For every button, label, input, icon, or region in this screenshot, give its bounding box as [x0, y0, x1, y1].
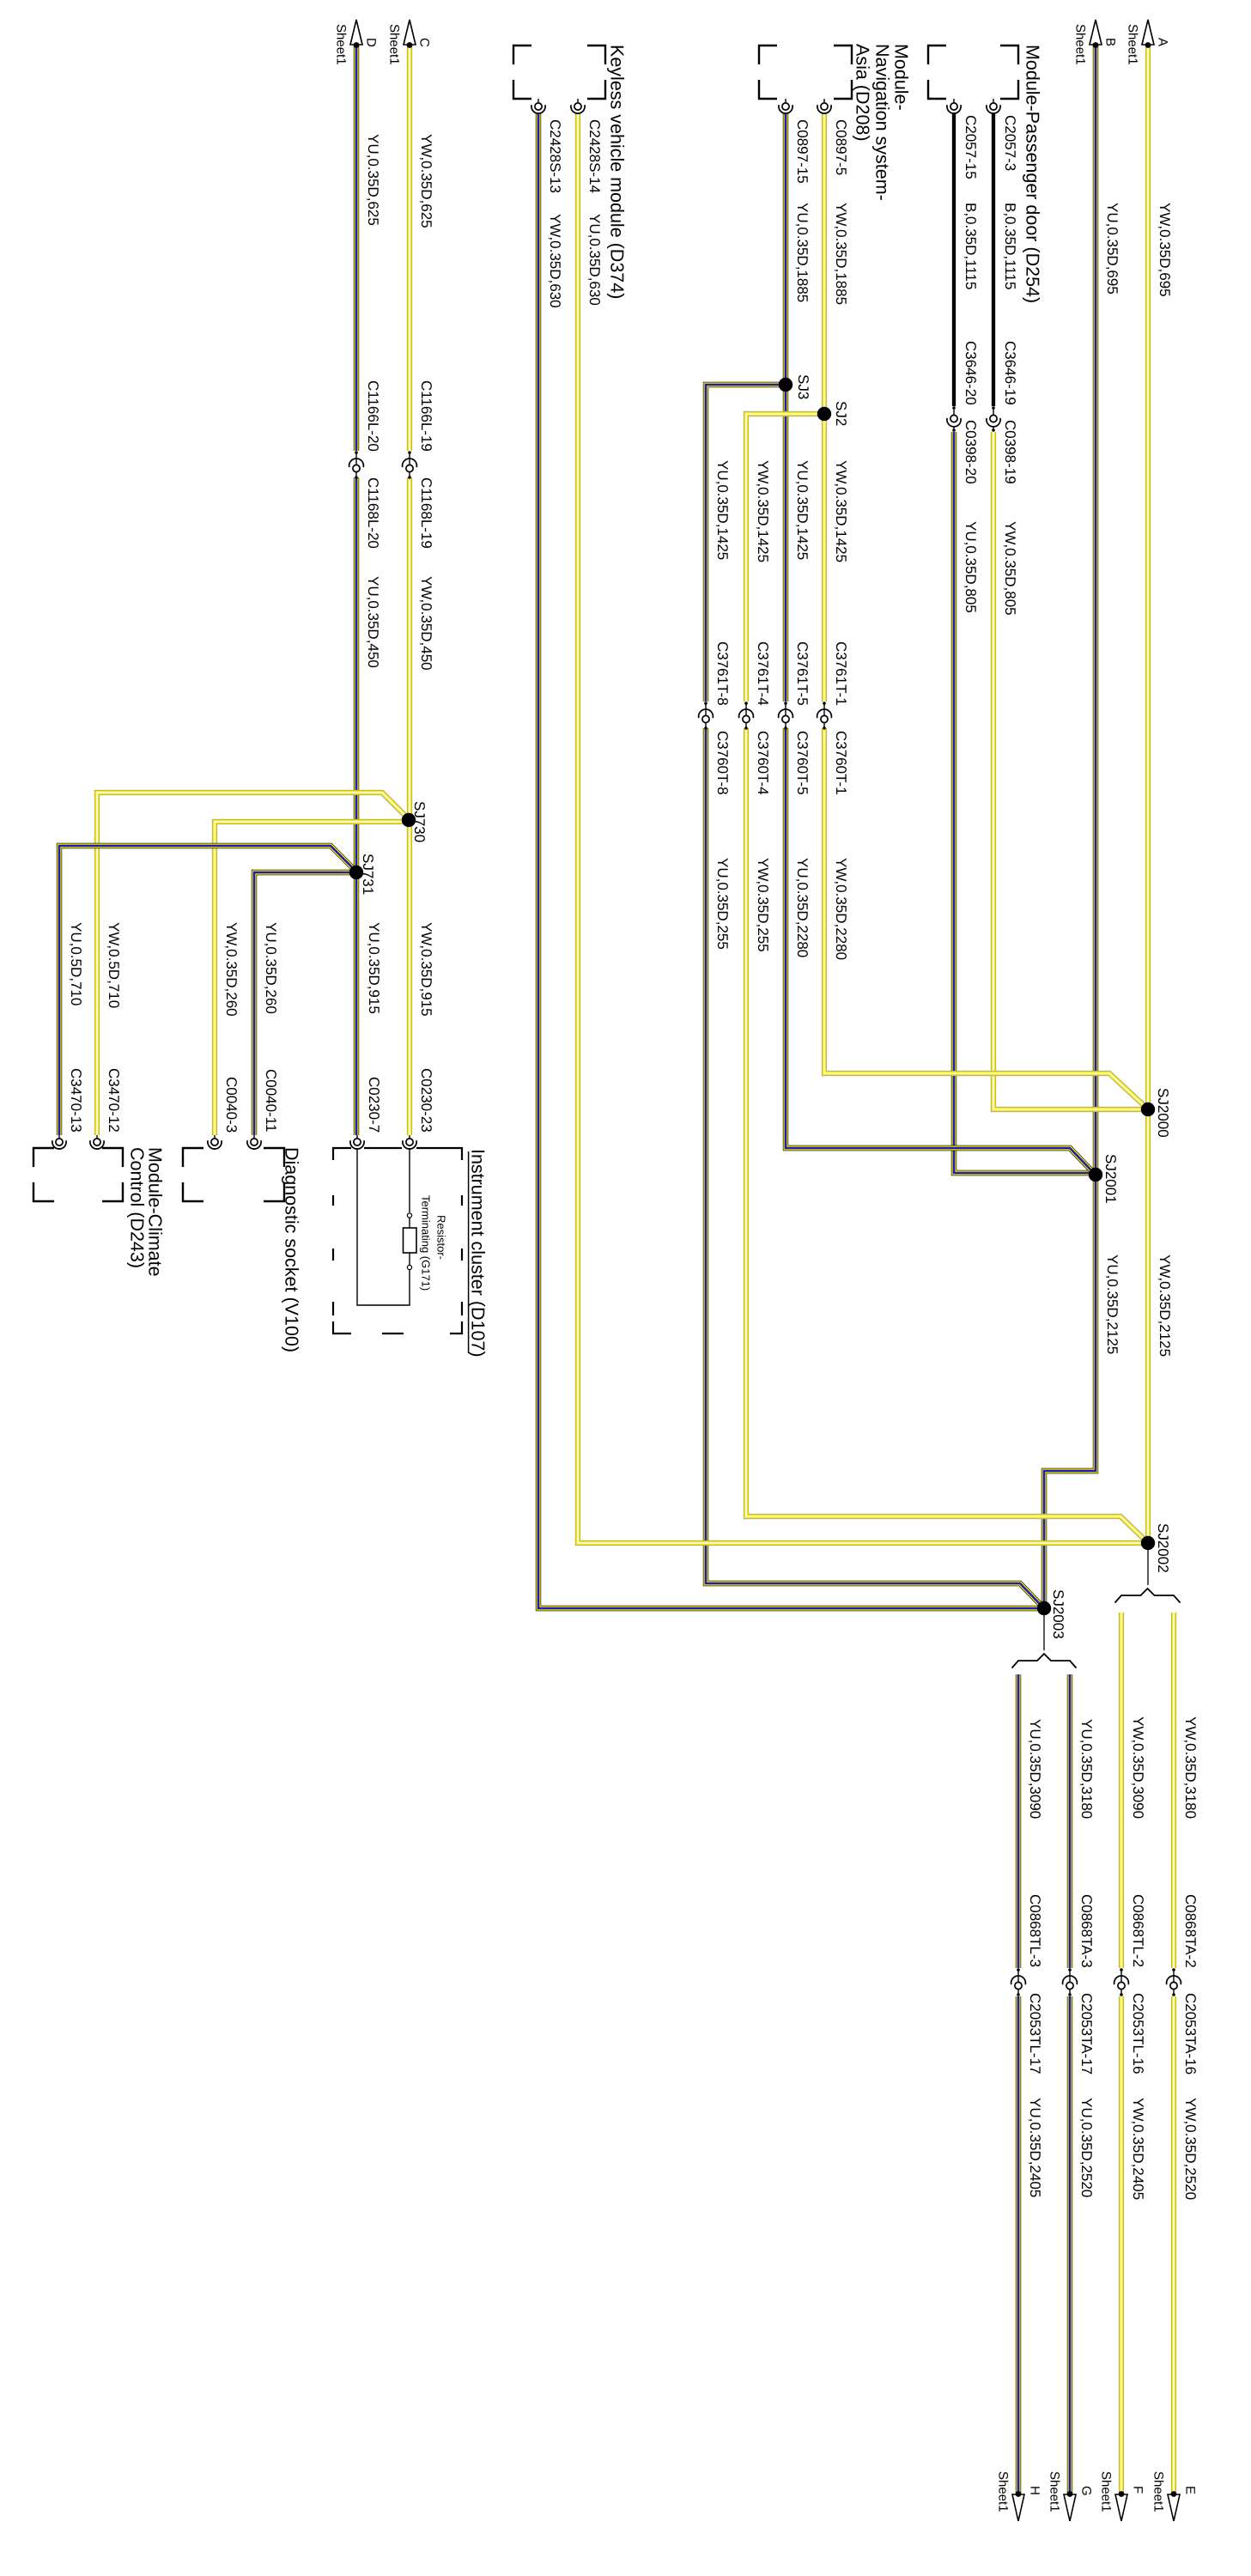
svg-text:Sheet1: Sheet1 [1048, 2471, 1062, 2512]
svg-text:YW,0.35D,625: YW,0.35D,625 [418, 134, 434, 228]
wire YU,0.35D,1425 branch from SJ3 to C3761T-8 [706, 385, 786, 702]
svg-text:Sheet1: Sheet1 [1151, 2471, 1166, 2512]
svg-text:YU,0.35D,1885: YU,0.35D,1885 [794, 203, 811, 302]
connector C0230-23 [403, 1139, 416, 1149]
svg-text:YW,0.35D,630: YW,0.35D,630 [547, 214, 563, 308]
svg-text:Keyless vehicle module (D374): Keyless vehicle module (D374) [606, 45, 627, 299]
svg-text:YW,0.35D,1425: YW,0.35D,1425 [755, 460, 771, 562]
svg-text:YW,0.35D,255: YW,0.35D,255 [755, 858, 771, 952]
inline connector pair C0868TA-3 / C2053TA-17 [1063, 1970, 1078, 1995]
inline connector pair C1166L-20 / C1168L-20 [349, 453, 364, 477]
svg-text:YW,0.35D,1885: YW,0.35D,1885 [833, 203, 849, 305]
svg-text:C1166L-20: C1166L-20 [365, 380, 381, 452]
connector C2057-3 [987, 103, 1000, 113]
svg-text:C0897-15: C0897-15 [794, 119, 811, 184]
svg-text:B: B [1103, 38, 1118, 46]
svg-text:C2053TA-17: C2053TA-17 [1078, 1993, 1095, 2075]
off-page arrow D to Sheet1 [350, 20, 362, 45]
svg-text:Sheet1: Sheet1 [334, 24, 349, 65]
wire YU,0.5D,710 from C3470-13 to SJ731 [59, 846, 355, 1135]
svg-text:Sheet1: Sheet1 [996, 2471, 1011, 2512]
off-page arrow B to Sheet1 [1090, 20, 1102, 45]
svg-text:Resistor-: Resistor- [434, 1215, 447, 1260]
stem SJ2003 to brace [1043, 1615, 1045, 1650]
svg-text:C3646-20: C3646-20 [963, 341, 979, 405]
brace under SJ2003 [1012, 1654, 1077, 1668]
wire YU,0.35D,2405 from C2053TL-17 to arrow H [1016, 1996, 1021, 2494]
svg-text:YW,0.35D,805: YW,0.35D,805 [1002, 521, 1018, 616]
splice junction SJ731 [349, 866, 363, 879]
connector C2057-15 [947, 103, 961, 113]
inline connector pair C3761T-5 / C3760T-5 [779, 703, 793, 728]
svg-text:YU,0.35D,2125: YU,0.35D,2125 [1104, 1255, 1120, 1354]
svg-text:C3760T-4: C3760T-4 [755, 731, 771, 795]
svg-text:Module-Passenger door (D254): Module-Passenger door (D254) [1022, 45, 1042, 303]
svg-text:SJ2000: SJ2000 [1155, 1088, 1171, 1138]
svg-text:Diagnostic socket (V100): Diagnostic socket (V100) [281, 1147, 301, 1352]
svg-text:C0398-19: C0398-19 [1002, 420, 1018, 484]
wire YW,0.35D,2405 from C2053TL-16 to arrow F [1119, 1996, 1124, 2494]
svg-text:YU,0.35D,450: YU,0.35D,450 [365, 576, 381, 668]
svg-text:YW,0.35D,2520: YW,0.35D,2520 [1182, 2098, 1199, 2200]
svg-text:C0868TA-2: C0868TA-2 [1182, 1894, 1199, 1968]
connector C3470-12 [90, 1139, 104, 1149]
svg-text:YU,0.35D,695: YU,0.35D,695 [1104, 203, 1120, 295]
wire B,0.35D,1115 from C2057-3 to C3646-19 [992, 112, 995, 406]
module box Module-Passenger door (D254) [928, 46, 1018, 99]
wire YU,0.35D,2280 from C3760T-5 to SJ2001 [786, 728, 1092, 1171]
svg-text:YU,0.35D,3090: YU,0.35D,3090 [1027, 1719, 1043, 1819]
inline connector pair C0868TL-2 / C2053TL-16 [1114, 1970, 1129, 1995]
connector C0040-3 [208, 1139, 222, 1149]
svg-text:YW,0.35D,450: YW,0.35D,450 [418, 576, 434, 671]
svg-text:YU,0.35D,260: YU,0.35D,260 [263, 922, 279, 1014]
svg-text:SJ731: SJ731 [360, 854, 376, 895]
svg-text:C3470-13: C3470-13 [68, 1068, 84, 1133]
svg-text:Sheet1: Sheet1 [387, 24, 402, 65]
module box Keyless vehicle module (D374) [513, 46, 605, 99]
svg-text:C1168L-20: C1168L-20 [365, 477, 381, 549]
inline connector pair C1166L-19 / C1168L-19 [403, 453, 417, 477]
wire B: YU,0.35D,695 / YU,0.35D,2125 from arrow B through SJ2001, jog left, to SJ2003 [1044, 46, 1096, 1604]
stem SJ2002 to brace [1147, 1550, 1149, 1585]
brace under SJ2002 [1115, 1589, 1181, 1603]
wire C: YW,0.35D,625 from arrow C to C1166L-19 [407, 46, 412, 451]
connector C2428S-14 [571, 103, 585, 113]
svg-text:YU,0.35D,1425: YU,0.35D,1425 [794, 460, 811, 560]
wire YW,0.35D,260 from C0040-3 to SJ730 [215, 822, 403, 1135]
connector stems [993, 99, 994, 102]
svg-text:YW,0.35D,3090: YW,0.35D,3090 [1130, 1716, 1146, 1819]
svg-text:YW,0.35D,2125: YW,0.35D,2125 [1157, 1255, 1173, 1357]
svg-text:C3761T-8: C3761T-8 [714, 641, 731, 706]
wire YW,0.35D,2280 from C3760T-1 to SJ2000 [824, 728, 1145, 1106]
svg-text:SJ2002: SJ2002 [1155, 1523, 1171, 1573]
svg-text:YW,0.35D,2280: YW,0.35D,2280 [833, 858, 849, 960]
svg-text:YW,0.35D,915: YW,0.35D,915 [418, 922, 434, 1017]
module box Instrument cluster (D107), dashed [333, 1148, 462, 1334]
wire YW,0.35D,1885 / YW,0.35D,1425 from C0897-5 through SJ2 to C3761T-1 [822, 112, 827, 702]
module box Module-Climate Control (D243) [33, 1148, 123, 1201]
svg-text:C0230-7: C0230-7 [366, 1077, 382, 1133]
wire YU,0.35D,3090 from SJ2003 brace to C0868TL-3 [1016, 1674, 1021, 1968]
svg-text:B,0.35D,1115: B,0.35D,1115 [963, 203, 979, 289]
inline connector pair C3761T-1 / C3760T-1 [817, 703, 832, 728]
svg-text:C1166L-19: C1166L-19 [418, 380, 434, 452]
svg-text:SJ3: SJ3 [795, 374, 811, 399]
svg-text:H: H [1028, 2486, 1042, 2495]
svg-text:C0897-5: C0897-5 [833, 119, 849, 175]
svg-text:Sheet1: Sheet1 [1099, 2471, 1114, 2512]
connector C0040-11 [247, 1139, 261, 1149]
svg-text:YU,0.35D,1425: YU,0.35D,1425 [714, 460, 731, 560]
underline for D107 title [468, 1151, 470, 1353]
resistor R Terminating (G171) and internal wiring [409, 1149, 410, 1212]
svg-text:YU,0.35D,625: YU,0.35D,625 [365, 134, 381, 226]
svg-text:Navigation system-: Navigation system- [871, 44, 892, 201]
splice junction SJ2001 [1089, 1168, 1102, 1182]
svg-text:YU,0.5D,710: YU,0.5D,710 [68, 922, 84, 1005]
svg-text:Control (D243): Control (D243) [126, 1147, 147, 1268]
splice junction SJ2000 [1141, 1103, 1155, 1116]
wire YU,0.35D,3180 from SJ2003 brace to C0868TA-3 [1067, 1674, 1072, 1968]
svg-text:C3470-12: C3470-12 [106, 1068, 122, 1133]
svg-text:C2053TL-16: C2053TL-16 [1130, 1993, 1146, 2075]
svg-text:Module-: Module- [890, 44, 911, 111]
svg-text:C2057-15: C2057-15 [963, 115, 979, 179]
wire YW,0.35D,255 from C3760T-4 to SJ2002 [746, 728, 1145, 1540]
wire YU,0.35D,805 from C0398-20 to SJ2001 [954, 432, 1091, 1173]
splice junction SJ2002 [1141, 1536, 1155, 1550]
svg-text:C2053TL-17: C2053TL-17 [1027, 1993, 1043, 2075]
svg-text:C2057-3: C2057-3 [1002, 115, 1018, 171]
off-page arrow A to Sheet1 [1142, 20, 1154, 45]
wire A: YW,0.35D,695 / YW,0.35D,2125 from arrow A through SJ2000 to SJ2002 [1145, 46, 1151, 1543]
svg-text:YW,0.35D,2405: YW,0.35D,2405 [1130, 2098, 1146, 2200]
connector C0897-5 [817, 103, 831, 113]
inline connector pair C3646-19 / C0398-19 [987, 408, 1000, 431]
svg-text:YW,0.35D,1425: YW,0.35D,1425 [833, 460, 849, 562]
svg-text:C1168L-19: C1168L-19 [418, 477, 434, 549]
svg-text:C3761T-4: C3761T-4 [755, 641, 771, 706]
svg-text:YU,0.35D,3180: YU,0.35D,3180 [1078, 1719, 1095, 1819]
inline connector pair C3761T-8 / C3760T-8 [699, 703, 714, 728]
wire YU,0.35D,260 from C0040-11 to SJ731 [254, 872, 351, 1135]
svg-text:Sheet1: Sheet1 [1126, 24, 1140, 65]
svg-text:C: C [417, 38, 432, 47]
svg-text:C0868TL-3: C0868TL-3 [1027, 1894, 1043, 1967]
svg-text:YU,0.35D,630: YU,0.35D,630 [586, 214, 603, 306]
svg-text:YU,0.35D,915: YU,0.35D,915 [366, 922, 382, 1014]
svg-text:D: D [364, 38, 379, 47]
svg-text:YU,0.35D,255: YU,0.35D,255 [714, 858, 731, 950]
svg-text:C0230-23: C0230-23 [418, 1068, 434, 1133]
svg-text:YW,0.5D,710: YW,0.5D,710 [106, 922, 122, 1008]
svg-text:SJ2003: SJ2003 [1050, 1589, 1066, 1639]
svg-text:YU,0.35D,2405: YU,0.35D,2405 [1027, 2098, 1043, 2197]
wire YU,0.35D,2520 from C2053TA-17 to arrow G [1067, 1996, 1072, 2494]
off-page arrow H to Sheet1 [1012, 2494, 1024, 2521]
connector C0897-15 [779, 103, 793, 113]
wire YW,0.35D,630 from C2428S-13 to SJ2003 [538, 112, 1037, 1608]
wire YU,0.35D,1885 / YU,0.35D,1425 from C0897-15 through SJ3 to C3761T-5 [783, 112, 788, 702]
wire YW,0.35D,450 / YW,0.35D,915 from C1168L-19 through SJ730 to C0230-23 [407, 477, 412, 1135]
inline connector pair C3761T-4 / C3760T-4 [739, 703, 754, 728]
svg-text:C3760T-5: C3760T-5 [794, 731, 811, 795]
wire B,0.35D,1115 from C2057-15 to C3646-20 [952, 112, 956, 406]
off-page arrow F to Sheet1 [1115, 2494, 1127, 2521]
svg-text:SJ2: SJ2 [833, 401, 849, 426]
svg-text:G: G [1079, 2486, 1094, 2496]
svg-text:Sheet1: Sheet1 [1073, 24, 1088, 65]
connector C3470-13 [52, 1139, 66, 1149]
svg-text:F: F [1131, 2486, 1145, 2494]
off-page arrow E to Sheet1 [1168, 2494, 1180, 2521]
svg-text:C2053TA-16: C2053TA-16 [1182, 1993, 1199, 2075]
splice junction SJ2 [817, 407, 831, 421]
splice junction SJ3 [779, 378, 793, 392]
svg-text:YW,0.35D,695: YW,0.35D,695 [1157, 203, 1173, 297]
svg-text:C0040-3: C0040-3 [223, 1077, 240, 1133]
svg-text:C3646-19: C3646-19 [1002, 341, 1018, 405]
wire YU,0.35D,450 / YU,0.35D,915 from C1168L-20 through SJ731 to C0230-7 [354, 477, 359, 1135]
svg-text:C3761T-5: C3761T-5 [794, 641, 811, 706]
inline connector pair C3646-20 / C0398-20 [947, 408, 961, 431]
svg-text:B,0.35D,1115: B,0.35D,1115 [1002, 203, 1018, 289]
svg-text:C0040-11: C0040-11 [263, 1069, 279, 1132]
svg-text:C2428S-14: C2428S-14 [586, 119, 603, 193]
inline connector pair C0868TL-3 / C2053TL-17 [1011, 1970, 1026, 1995]
wire YU,0.35D,630 from C2428S-14 to SJ2002 [578, 112, 1142, 1543]
off-page arrow G to Sheet1 [1064, 2494, 1076, 2521]
svg-text:SJ730: SJ730 [411, 801, 428, 842]
splice junction SJ730 [402, 813, 416, 827]
svg-text:YU,0.35D,2520: YU,0.35D,2520 [1078, 2098, 1095, 2197]
svg-text:YW,0.35D,3180: YW,0.35D,3180 [1182, 1716, 1199, 1819]
svg-text:C0398-20: C0398-20 [963, 420, 979, 484]
svg-text:A: A [1156, 38, 1170, 46]
svg-text:YU,0.35D,2280: YU,0.35D,2280 [794, 858, 811, 957]
wire YW,0.35D,3090 from SJ2002 brace to C0868TL-2 [1119, 1613, 1124, 1968]
svg-text:Instrument cluster (D107): Instrument cluster (D107) [467, 1149, 488, 1358]
module box Module-Navigation system-Asia (D208) [759, 46, 852, 99]
wire D: YU,0.35D,625 from arrow D to C1166L-20 [354, 46, 359, 451]
svg-text:YU,0.35D,805: YU,0.35D,805 [963, 521, 979, 613]
svg-text:E: E [1183, 2486, 1198, 2494]
module box Diagnostic socket (V100) [183, 1148, 284, 1201]
wire YW,0.35D,805 from C0398-19 to SJ2000 [993, 432, 1144, 1109]
connector C0230-7 [350, 1139, 364, 1149]
svg-text:C0868TA-3: C0868TA-3 [1078, 1894, 1095, 1968]
svg-text:C2428S-13: C2428S-13 [547, 119, 563, 193]
wire YW,0.5D,710 from C3470-12 to SJ730 [97, 793, 407, 1135]
off-page arrow C to Sheet1 [404, 20, 416, 45]
svg-text:C3760T-1: C3760T-1 [833, 731, 849, 795]
wire YW,0.35D,3180 from SJ2002 brace to C0868TA-2 [1171, 1613, 1176, 1968]
splice junction SJ2003 [1037, 1601, 1051, 1615]
svg-text:Terminating (G171): Terminating (G171) [419, 1195, 432, 1291]
connector C2428S-13 [531, 103, 545, 113]
svg-text:C3760T-8: C3760T-8 [714, 731, 731, 795]
svg-text:SJ2001: SJ2001 [1102, 1154, 1119, 1204]
svg-text:Asia (D208): Asia (D208) [852, 44, 872, 142]
svg-text:C0868TL-2: C0868TL-2 [1130, 1894, 1146, 1967]
svg-text:C3761T-1: C3761T-1 [833, 641, 849, 706]
inline connector pair C0868TA-2 / C2053TA-16 [1167, 1970, 1181, 1995]
wire YW,0.35D,1425 branch from SJ2 to C3761T-4 [746, 414, 824, 702]
svg-text:YW,0.35D,260: YW,0.35D,260 [223, 922, 240, 1017]
wire YU,0.35D,255 from C3760T-8 to SJ2003 [706, 728, 1041, 1605]
wire YW,0.35D,2520 from C2053TA-16 to arrow E [1171, 1996, 1176, 2494]
